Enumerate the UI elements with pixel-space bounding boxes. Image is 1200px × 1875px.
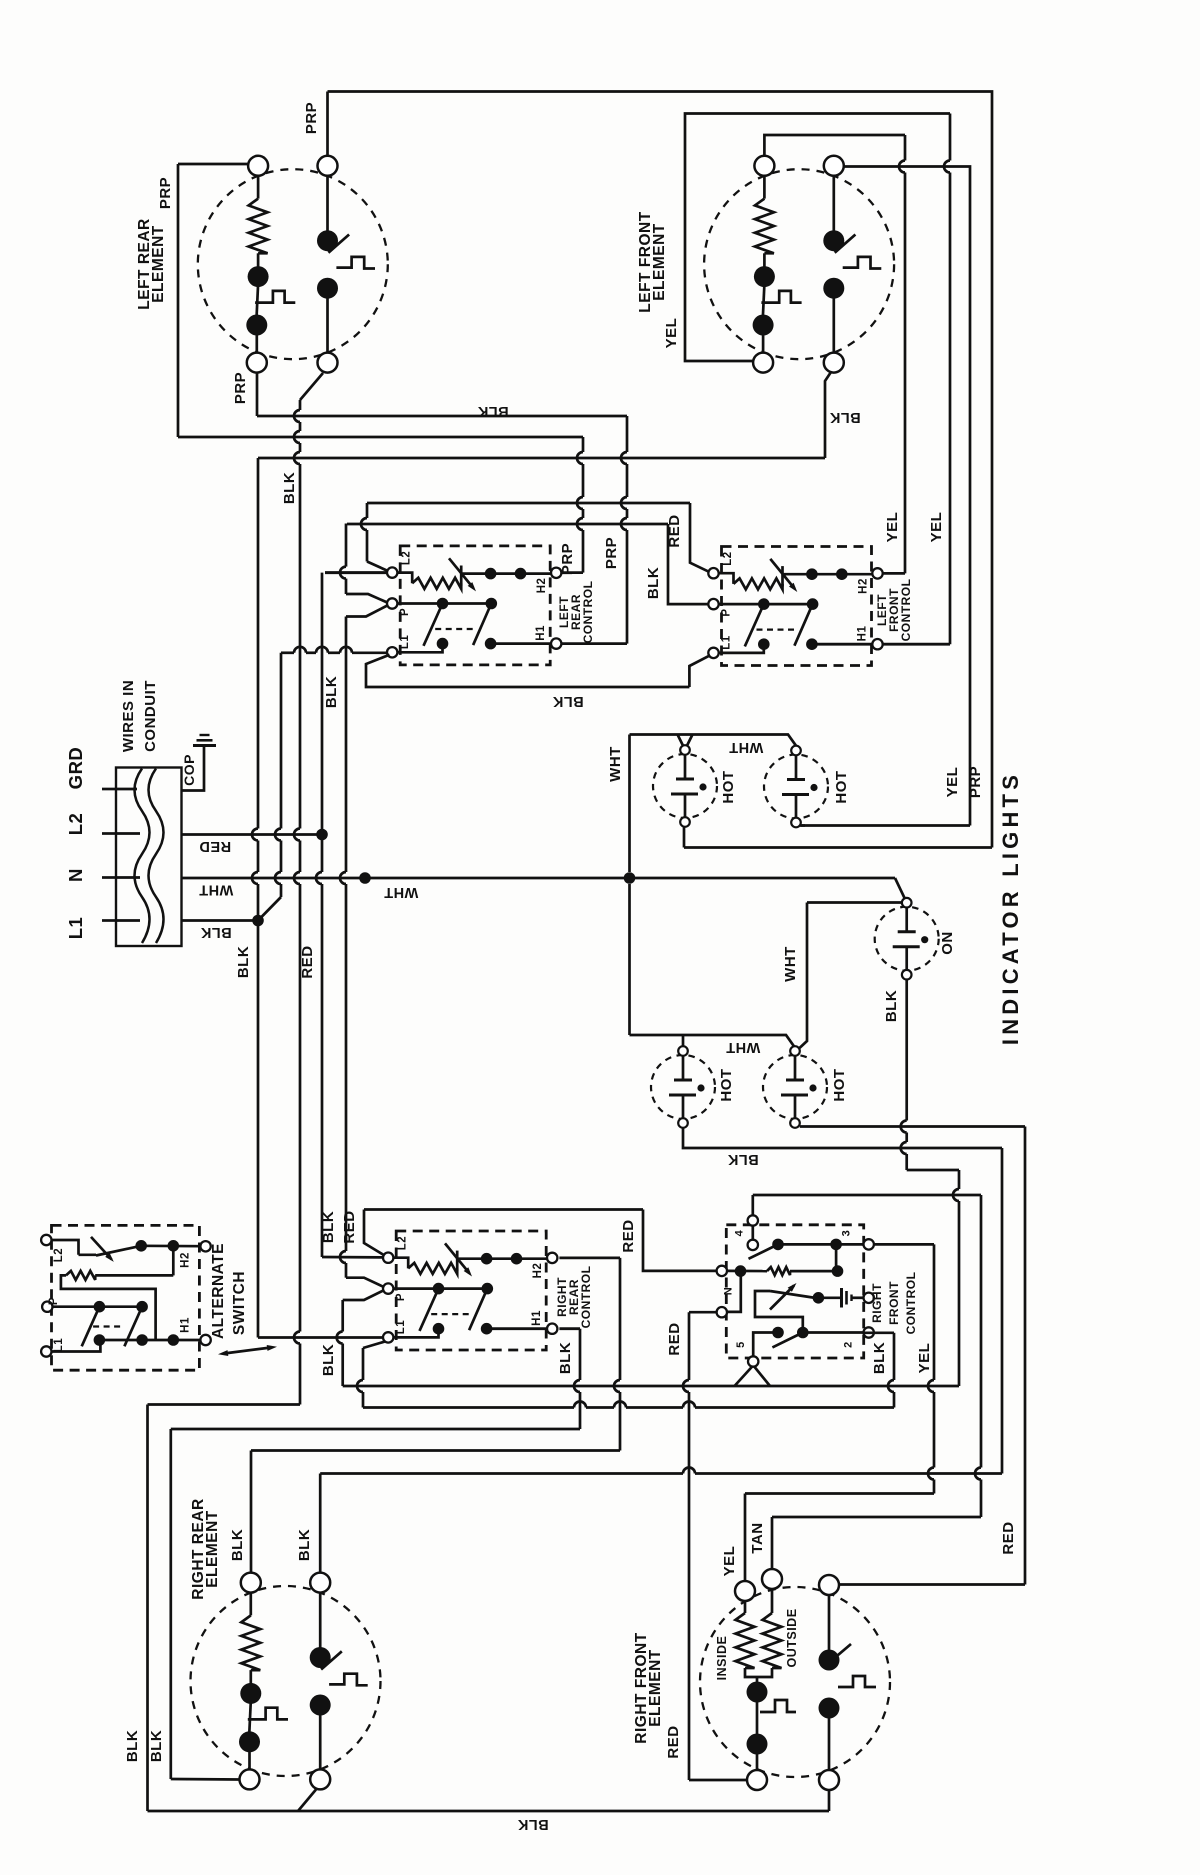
svg-text:SWITCH: SWITCH <box>231 1271 248 1335</box>
svg-text:RED: RED <box>299 945 316 978</box>
svg-text:L2: L2 <box>397 1236 409 1250</box>
svg-text:H1: H1 <box>535 625 547 641</box>
svg-text:L2: L2 <box>53 1248 65 1262</box>
svg-text:BLK: BLK <box>727 1151 758 1167</box>
svg-text:WIRES IN: WIRES IN <box>120 680 137 752</box>
S1 left rear control internals <box>387 551 561 658</box>
element E4 switch right branch <box>828 1595 831 1650</box>
S4 bottom row <box>753 1333 778 1357</box>
svg-text:H1: H1 <box>180 1317 192 1333</box>
wire BLK V346 lower segment from P of S1 down to P of S3 <box>346 606 387 617</box>
wire BLK terminal 5 bus H1386 <box>343 1385 959 1388</box>
wire BLK L1 of S1 down-right to H687 bus <box>366 655 689 687</box>
wire BLK V363 down to H1408 <box>362 1348 365 1380</box>
svg-text:RED: RED <box>665 1725 682 1758</box>
element E1 left rear terminals <box>248 156 268 176</box>
conduit internal stub lines <box>117 788 137 791</box>
alternate switch S5 box <box>52 1225 200 1370</box>
lamp DS3 internals <box>669 1056 705 1119</box>
svg-text:BLK: BLK <box>148 1730 165 1762</box>
supply terminal stubs L1 N L2 GRD <box>102 788 117 791</box>
wire TAN H1517 to E4 TAN terminal <box>772 1516 981 1519</box>
wire BLK lamp DS3 bottom stub and bus H1148 to V1002 <box>683 1128 1002 1148</box>
wire PRP horizontal H416 <box>257 415 627 418</box>
svg-text:L2: L2 <box>65 813 86 836</box>
svg-text:BLK: BLK <box>124 1730 141 1762</box>
svg-text:YEL: YEL <box>944 767 961 798</box>
wire PRP vertical V583 down to H2 row <box>582 437 585 452</box>
S3 right rear control internals <box>383 1236 557 1343</box>
svg-text:5: 5 <box>735 1341 747 1348</box>
S2 left front control terminals L2 P L1 H2 H1 <box>708 568 718 578</box>
lamp DS4 circle <box>763 1055 827 1119</box>
lamp DS5 ON internals <box>893 907 929 970</box>
svg-text:4: 4 <box>734 1229 746 1236</box>
lamp DS3 circle <box>651 1055 715 1119</box>
svg-text:RED: RED <box>1000 1521 1017 1554</box>
svg-text:RIGHT: RIGHT <box>870 1283 884 1323</box>
element E3 right rear internals <box>239 1593 368 1770</box>
svg-text:3: 3 <box>841 1230 853 1237</box>
junction dot BLK / L1 net <box>252 915 264 927</box>
wire RED corner into L2 row of S3 <box>322 1256 383 1259</box>
wire BLK V668 down to P of S2 <box>668 524 709 604</box>
S5 terminals <box>41 1235 51 1245</box>
S2 left front control box <box>722 547 872 666</box>
wire BLK terminal 5 V-diagonals <box>735 1367 771 1387</box>
lamp DS2 circle <box>764 755 828 819</box>
wire WHT V630 lamp top bus link <box>628 735 631 873</box>
junction dot WHT mid <box>359 872 371 884</box>
wire PRP stub lamp DS1 bottom <box>683 827 686 848</box>
wire BLK H1429 bus to V170 <box>171 1428 580 1431</box>
svg-text:PRP: PRP <box>303 102 320 134</box>
svg-text:YEL: YEL <box>928 512 945 543</box>
element E2 left front circle <box>704 169 894 359</box>
svg-text:PRP: PRP <box>559 543 576 575</box>
svg-text:ELEMENT: ELEMENT <box>651 223 668 301</box>
lamp DS4 internals <box>781 1056 817 1119</box>
wire PRP from E1 top-left terminal left <box>178 163 249 166</box>
svg-text:CONTROL: CONTROL <box>899 579 913 642</box>
lamp DS2 internals <box>782 755 818 818</box>
svg-text:BLK: BLK <box>200 924 231 940</box>
svg-text:PRP: PRP <box>157 177 174 209</box>
svg-text:PRP: PRP <box>232 372 249 404</box>
wire E1 bottom-left terminal down <box>256 373 259 416</box>
element E4 inside resistor <box>744 1601 747 1613</box>
S5 H2 row <box>141 1244 200 1247</box>
wire BLK H458 to left <box>258 457 825 460</box>
element E4 right front circle <box>700 1587 890 1777</box>
S4 ground symbol <box>840 1288 843 1308</box>
wire BLK lamp DS4 bottom bus H1126 to V1025 <box>800 1125 1025 1128</box>
svg-text:FRONT: FRONT <box>887 1281 901 1325</box>
wire YEL H1450 bus to V251 <box>251 1449 620 1452</box>
svg-text:L1: L1 <box>53 1338 65 1353</box>
wire H2 row S1 to V583 <box>562 571 583 574</box>
wire BLK V894 terminal 2 riser <box>864 1331 894 1334</box>
wire YEL S3 H2 to V620 <box>559 1257 620 1260</box>
wire BLK H1473 bus: E3 top-right to V1002 <box>319 1474 322 1572</box>
svg-text:H1: H1 <box>531 1310 543 1326</box>
S5 selector arrow <box>91 1237 112 1260</box>
junction dot WHT at lamps branch <box>624 872 636 884</box>
wire YEL V950 down to H1 of S2 <box>949 114 952 161</box>
wire BLK bottom bus H1811 <box>148 1810 830 1813</box>
wire H2 row S2 to V905 <box>883 572 905 575</box>
S3 right rear control terminals L2 P L1 H2 H1 <box>383 1253 393 1263</box>
S5 resistor <box>66 1271 95 1280</box>
lamp DS1 terminals <box>680 745 690 755</box>
S4 N row with resistor <box>727 1270 767 1273</box>
svg-text:H2: H2 <box>536 578 548 594</box>
wire BLK bus B H1408 <box>363 1406 574 1409</box>
S5 blades <box>82 1307 100 1347</box>
svg-text:TAN: TAN <box>749 1522 766 1553</box>
wire RED V690 down to L2 of S2 <box>690 503 709 572</box>
lamp DS1 internals <box>671 755 707 818</box>
svg-text:YEL: YEL <box>884 512 901 543</box>
wire E1 top-right terminal up to top line <box>326 92 329 156</box>
element E3 right rear circle <box>191 1586 381 1776</box>
svg-text:P: P <box>48 1297 60 1305</box>
wire BLK diagonal from S3 L1 to V363 <box>363 1342 385 1349</box>
svg-text:BLK: BLK <box>320 1211 337 1243</box>
svg-text:H2: H2 <box>858 578 870 594</box>
svg-text:CONTROL: CONTROL <box>581 581 595 644</box>
wire L1 row of S1 left to V281 with hops <box>281 651 294 654</box>
S4 inner contact circle 4 <box>751 1226 754 1241</box>
wire BLK vertical V300 (E1 to bus B left corner) <box>299 400 302 410</box>
S5 resistor left loop to H1 row <box>61 1275 156 1340</box>
svg-text:ELEMENT: ELEMENT <box>647 1649 664 1727</box>
element E4 resistor join + switch left <box>745 1668 772 1677</box>
wire BLK E3 bottom-right diagonal to bottom bus <box>298 1790 316 1812</box>
element E4 terminals <box>735 1581 755 1601</box>
S5 L1 row <box>52 1340 101 1352</box>
svg-text:ELEMENT: ELEMENT <box>150 225 167 303</box>
svg-text:HOT: HOT <box>720 770 737 803</box>
wire BLK V258 down to supply junction and on to S3 L1 row <box>257 458 260 829</box>
svg-text:OUTSIDE: OUTSIDE <box>785 1608 799 1667</box>
svg-text:CONTROL: CONTROL <box>904 1272 918 1335</box>
svg-text:GRD: GRD <box>65 747 86 790</box>
S1 left rear control box <box>400 546 550 665</box>
wire RED V689 from S4 N2 down to E4 bottom-left <box>689 1311 717 1314</box>
wire BLK diagonal V281 into supply BLK junction <box>280 653 283 829</box>
svg-text:BLK: BLK <box>323 676 340 708</box>
wire YEL lamps bus H825 <box>800 824 970 827</box>
svg-text:RED: RED <box>341 1210 358 1243</box>
wire PRP left vertical V178 <box>177 164 180 437</box>
svg-text:YEL: YEL <box>916 1343 933 1374</box>
svg-text:ALTERNATE: ALTERNATE <box>210 1243 227 1339</box>
svg-text:N: N <box>65 868 86 882</box>
S4 terminal 4 wire from H1195 <box>751 1195 754 1216</box>
wire RED V322 from L2 row through supply junction down to S3 L2 row <box>321 573 324 835</box>
conduit wavy wire 1 <box>135 769 150 944</box>
wire YEL V905 down to H2 of S2 <box>904 135 907 161</box>
wire WHT stub to lamp DS3 top <box>682 1035 685 1046</box>
lamp DS5 ON circle <box>875 907 939 971</box>
wire TAN S4 terminal 4 link H1195 to V981 <box>753 1194 981 1197</box>
svg-text:INDICATOR LIGHTS: INDICATOR LIGHTS <box>998 771 1023 1045</box>
lamp DS5 ON terminals <box>902 898 912 908</box>
wire BLK V1002 down to H1473 bus <box>1001 1148 1004 1474</box>
lamp DS2 terminals <box>791 746 801 756</box>
svg-text:L1: L1 <box>395 1320 407 1335</box>
S5 L2 jog and blade <box>52 1240 79 1255</box>
S4 N2 link vertical <box>727 1271 741 1312</box>
svg-text:P: P <box>395 1293 407 1301</box>
conduit wavy wire 2 <box>149 769 164 944</box>
svg-text:L1: L1 <box>399 635 411 650</box>
svg-text:BLK: BLK <box>517 1816 548 1832</box>
svg-text:ELEMENT: ELEMENT <box>204 1510 221 1588</box>
svg-text:WHT: WHT <box>782 946 799 982</box>
wire RED L2 row of S1 to V322 <box>325 571 387 574</box>
wire PRP vertical V627 down to H1 row of S1 <box>626 416 629 452</box>
lamp DS4 terminals <box>790 1046 800 1056</box>
svg-text:H2: H2 <box>180 1252 192 1268</box>
conduit box <box>116 768 182 947</box>
svg-text:L1: L1 <box>65 917 86 940</box>
wire BLK S3 H1 to V580 <box>559 1327 580 1330</box>
wire YEL E2 bottom-left: H112 frame <box>685 114 950 362</box>
S4 thermostat arrow <box>770 1286 794 1310</box>
wire E1 bottom-right diagonal to V300 <box>300 373 323 400</box>
S3 right rear control box <box>396 1231 546 1350</box>
control switch RIGHT FRONT CONTROL (S4) box <box>726 1225 863 1358</box>
ground wire COP from conduit <box>182 746 205 791</box>
wire BLK V346 upper segment to P of S1 <box>345 524 348 567</box>
wire RED H1780 to E4 bottom-left terminal <box>689 1779 747 1782</box>
wire BLK E2 bottom-right diagonal down to V825 <box>825 372 831 458</box>
svg-text:CONTROL: CONTROL <box>579 1266 593 1329</box>
S4 internal dots <box>772 1239 784 1251</box>
ground symbol <box>193 744 216 747</box>
svg-text:WHT: WHT <box>729 739 764 755</box>
wire BLK P of S3 down to terminal 5 bus <box>343 1290 384 1300</box>
svg-text:RED: RED <box>199 838 231 854</box>
element E2 left front internals <box>753 176 882 353</box>
wire RED H1584 to E4 terminal <box>839 1583 1025 1586</box>
svg-text:COP: COP <box>181 754 197 786</box>
svg-text:RED: RED <box>620 1219 637 1252</box>
S1 left rear control terminals L2 P L1 H2 H1 <box>387 567 397 577</box>
wire YEL E2 top-right terminal right to V970 <box>844 167 970 826</box>
svg-text:P: P <box>399 608 411 616</box>
svg-text:RED: RED <box>666 1322 683 1355</box>
S5 internal dots <box>135 1240 147 1252</box>
element E1 left rear circle <box>198 169 388 359</box>
wire BLK row from conduit to junction <box>182 919 259 922</box>
svg-text:BLK: BLK <box>281 472 298 504</box>
svg-text:N: N <box>722 1287 734 1295</box>
svg-text:BLK: BLK <box>883 990 900 1022</box>
wire YEL lamp DS2 bottom to H825 <box>801 824 805 827</box>
wire BLK P bus upper: corner H524 to V346 <box>347 523 668 526</box>
svg-text:H2: H2 <box>532 1263 544 1279</box>
svg-text:HOT: HOT <box>718 1068 735 1101</box>
wire BLK jog H1170 to V959 <box>907 1169 959 1172</box>
wire RED V643 down to S4 N terminal <box>643 1210 717 1271</box>
element E4 internal contact dots <box>747 1682 768 1703</box>
element E4 outside resistor <box>771 1589 774 1613</box>
wire BLK bus A H1405 to V147 <box>148 1403 301 1406</box>
svg-text:BLK: BLK <box>645 567 662 599</box>
wire RED V364 from S3 L2 diagonal up to H1209 <box>364 1210 383 1255</box>
wire BLK V959 down to terminal 5 bus <box>958 1170 961 1189</box>
svg-text:BLK: BLK <box>871 1342 888 1374</box>
wire BLK from ON lamp bottom down <box>905 980 908 1121</box>
lamp DS1 circle <box>653 754 717 818</box>
wire PRP horizontal H437 to H2 of S1 <box>178 436 583 439</box>
wire PRP top line H91 to right edge <box>328 92 993 848</box>
S4 bimetal step <box>755 1291 770 1304</box>
wire WHT row from conduit to ON lamp <box>182 877 896 880</box>
wire BLK corner into L1 row of S3 <box>258 1336 383 1339</box>
S4 ground wire <box>816 1296 840 1299</box>
lamp DS3 terminals <box>678 1046 688 1056</box>
svg-text:WHT: WHT <box>199 882 234 898</box>
S4 terminals <box>748 1215 758 1225</box>
svg-text:BLK: BLK <box>552 693 583 709</box>
wire H1 row S1 to V627 <box>562 642 627 645</box>
wire RED H1209 to V643 <box>364 1208 643 1211</box>
wire RED V1025 down to E4 third terminal <box>1024 1127 1027 1585</box>
svg-text:CONDUIT: CONDUIT <box>142 680 159 752</box>
wire WHT V807 from ON lamp row to DS4 top <box>800 903 808 1049</box>
svg-text:WHT: WHT <box>726 1039 761 1055</box>
element E3 right rear terminals <box>241 1573 261 1593</box>
wire BLK H1779 to E3 bottom-left terminal <box>171 1778 240 1781</box>
wire YEL S4 terminal 3 to V934 <box>874 1243 934 1246</box>
wire H1 row S2 to V950 <box>883 643 950 646</box>
svg-text:HOT: HOT <box>831 1068 848 1101</box>
svg-text:BLK: BLK <box>296 1529 313 1561</box>
svg-text:BLK: BLK <box>477 403 508 419</box>
element E2 left front terminals <box>754 156 774 176</box>
svg-text:WHT: WHT <box>607 746 624 782</box>
junction dot RED / L2 net <box>316 829 328 841</box>
svg-text:P: P <box>721 608 733 616</box>
svg-text:BLK: BLK <box>829 409 860 425</box>
svg-text:YEL: YEL <box>663 318 680 349</box>
svg-text:INSIDE: INSIDE <box>715 1636 729 1681</box>
wire YEL H1493 to V745 <box>745 1492 934 1495</box>
wire WHT lamp pair 1 top bus H734 <box>630 735 797 746</box>
wire RED row from conduit to junction <box>182 833 323 836</box>
svg-text:BLK: BLK <box>557 1342 574 1374</box>
svg-text:YEL: YEL <box>721 1546 738 1577</box>
S5 link dashed <box>93 1325 123 1327</box>
svg-text:L1: L1 <box>721 635 733 650</box>
svg-text:BLK: BLK <box>320 1344 337 1376</box>
wire WHT lamp pair 2 top bus H1035 <box>630 1035 795 1046</box>
svg-text:BLK: BLK <box>229 1529 246 1561</box>
svg-text:L2: L2 <box>401 551 413 565</box>
svg-text:WHT: WHT <box>384 884 419 900</box>
S5 P row <box>53 1305 143 1308</box>
element E1 left rear internals <box>246 176 375 353</box>
svg-text:ON: ON <box>939 931 956 955</box>
alternate switch pointer double arrow <box>224 1348 271 1354</box>
wire RED V367 L2 of S1 up to H503 <box>366 503 369 518</box>
wire WHT stubs to lamp DS1 top <box>678 735 693 747</box>
S4 bottom blade <box>772 1333 802 1348</box>
svg-text:2: 2 <box>843 1341 855 1348</box>
wire YEL E2 top-left terminal up and right to V905 <box>764 135 905 156</box>
S4 top row blade and wire to terminal 3 <box>749 1244 779 1258</box>
S4 row-link vertical <box>835 1244 838 1271</box>
wire RED H503 to V690 <box>367 502 690 505</box>
wire PRP lamps bus H847 <box>684 846 992 849</box>
wire BLK E4 bottom-right stub to bottom bus <box>828 1790 831 1811</box>
S2 left front control internals <box>708 551 882 658</box>
svg-text:PRP: PRP <box>603 537 620 569</box>
svg-text:L2: L2 <box>722 551 734 565</box>
S4 step to bottom row link <box>755 1304 803 1333</box>
svg-text:BLK: BLK <box>235 946 252 978</box>
svg-text:H1: H1 <box>857 626 869 642</box>
svg-text:HOT: HOT <box>833 770 850 803</box>
